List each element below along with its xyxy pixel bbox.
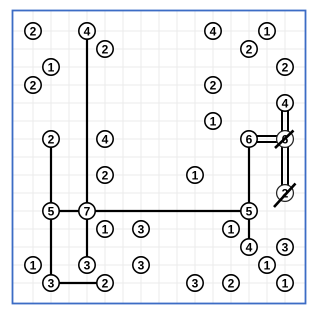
island (10,0) value 4 [205, 23, 221, 39]
svg-text:3: 3 [84, 258, 91, 272]
svg-text:7: 7 [84, 204, 91, 218]
bridge 5(1,10)-7(3,10) horizontal single [51, 210, 87, 212]
bridge 6(12,6)-6(14,6) horizontal double [249, 136, 285, 142]
slash mark on island (14,9) [274, 184, 296, 208]
island (6,11) value 3 [133, 221, 149, 237]
svg-text:1: 1 [282, 276, 289, 290]
island (10,3) value 2 [205, 77, 221, 93]
svg-text:4: 4 [210, 24, 217, 38]
svg-text:2: 2 [282, 60, 289, 74]
bridge 6(12,6)-5(12,10) vertical single [248, 139, 250, 211]
island (0,13) value 1 [25, 257, 41, 273]
svg-text:3: 3 [282, 240, 289, 254]
island (13,13) value 1 [259, 257, 275, 273]
island (13,0) value 1 [259, 23, 275, 39]
svg-text:4: 4 [102, 132, 109, 146]
bridge 7(3,10)-3(3,13) vertical single [86, 211, 88, 265]
bridge 2(1,6)-5(1,10) vertical single [50, 139, 52, 211]
island (14,2) value 2 [277, 59, 293, 75]
island (14,9) value 2 completed [277, 185, 294, 202]
island (0,3) value 2 [25, 77, 41, 93]
island (1,14) value 3 [43, 275, 59, 291]
island (9,14) value 3 [187, 275, 203, 291]
island (3,0) value 4 [79, 23, 95, 39]
island (4,11) value 1 [97, 221, 113, 237]
svg-text:3: 3 [138, 222, 145, 236]
island (3,10) value 7 [79, 203, 95, 219]
bridge 4(14,4)-6(14,6) vertical double [282, 103, 288, 139]
island (14,6) value 6 completed [277, 131, 294, 148]
island (4,1) value 2 [97, 41, 113, 57]
svg-text:3: 3 [138, 258, 145, 272]
island (12,10) value 5 [241, 203, 257, 219]
svg-text:2: 2 [48, 132, 55, 146]
island (9,8) value 1 [187, 167, 203, 183]
svg-text:4: 4 [282, 96, 289, 110]
svg-text:3: 3 [192, 276, 199, 290]
svg-text:4: 4 [84, 24, 91, 38]
bridge 6(14,6)-2(14,9) vertical double [282, 139, 288, 193]
svg-text:4: 4 [246, 240, 253, 254]
island (1,2) value 1 [43, 59, 59, 75]
svg-text:1: 1 [30, 258, 37, 272]
svg-text:6: 6 [246, 132, 253, 146]
svg-text:1: 1 [264, 258, 271, 272]
island (1,6) value 2 [43, 131, 59, 147]
bridge 5(1,10)-3(1,14) vertical single [50, 211, 52, 283]
svg-text:1: 1 [48, 60, 55, 74]
svg-text:2: 2 [210, 78, 217, 92]
svg-text:1: 1 [228, 222, 235, 236]
svg-text:5: 5 [246, 204, 253, 218]
island (14,4) value 4 [277, 95, 293, 111]
island (12,12) value 4 [241, 239, 257, 255]
island (12,6) value 6 [241, 131, 257, 147]
island (4,8) value 2 [97, 167, 113, 183]
bridge 4(3,0)-7(3,10) vertical single [86, 31, 88, 211]
svg-text:1: 1 [192, 168, 199, 182]
island (14,12) value 3 [277, 239, 293, 255]
svg-text:2: 2 [246, 42, 253, 56]
svg-text:1: 1 [210, 114, 217, 128]
svg-text:2: 2 [102, 168, 109, 182]
svg-text:2: 2 [228, 276, 235, 290]
svg-text:1: 1 [264, 24, 271, 38]
svg-text:3: 3 [48, 276, 55, 290]
svg-text:2: 2 [102, 42, 109, 56]
svg-text:2: 2 [30, 24, 37, 38]
island (4,6) value 4 [97, 131, 113, 147]
island (4,14) value 2 [97, 275, 113, 291]
svg-text:5: 5 [48, 204, 55, 218]
island (11,11) value 1 [223, 221, 239, 237]
svg-text:2: 2 [102, 276, 109, 290]
island (10,5) value 1 [205, 113, 221, 129]
island (11,14) value 2 [223, 275, 239, 291]
island (1,10) value 5 [43, 203, 59, 219]
svg-text:2: 2 [30, 78, 37, 92]
island (12,1) value 2 [241, 41, 257, 57]
island (3,13) value 3 [79, 257, 95, 273]
island (0,0) value 2 [25, 23, 41, 39]
bridge 7(3,10)-5(12,10) horizontal single [87, 210, 249, 212]
bridge 5(12,10)-4(12,12) vertical single [248, 211, 250, 247]
svg-text:1: 1 [102, 222, 109, 236]
island (14,14) value 1 [277, 275, 293, 291]
island (6,13) value 3 [133, 257, 149, 273]
slash mark on island (14,6) [275, 131, 294, 149]
bridge 3(1,14)-2(4,14) horizontal single [51, 282, 105, 284]
